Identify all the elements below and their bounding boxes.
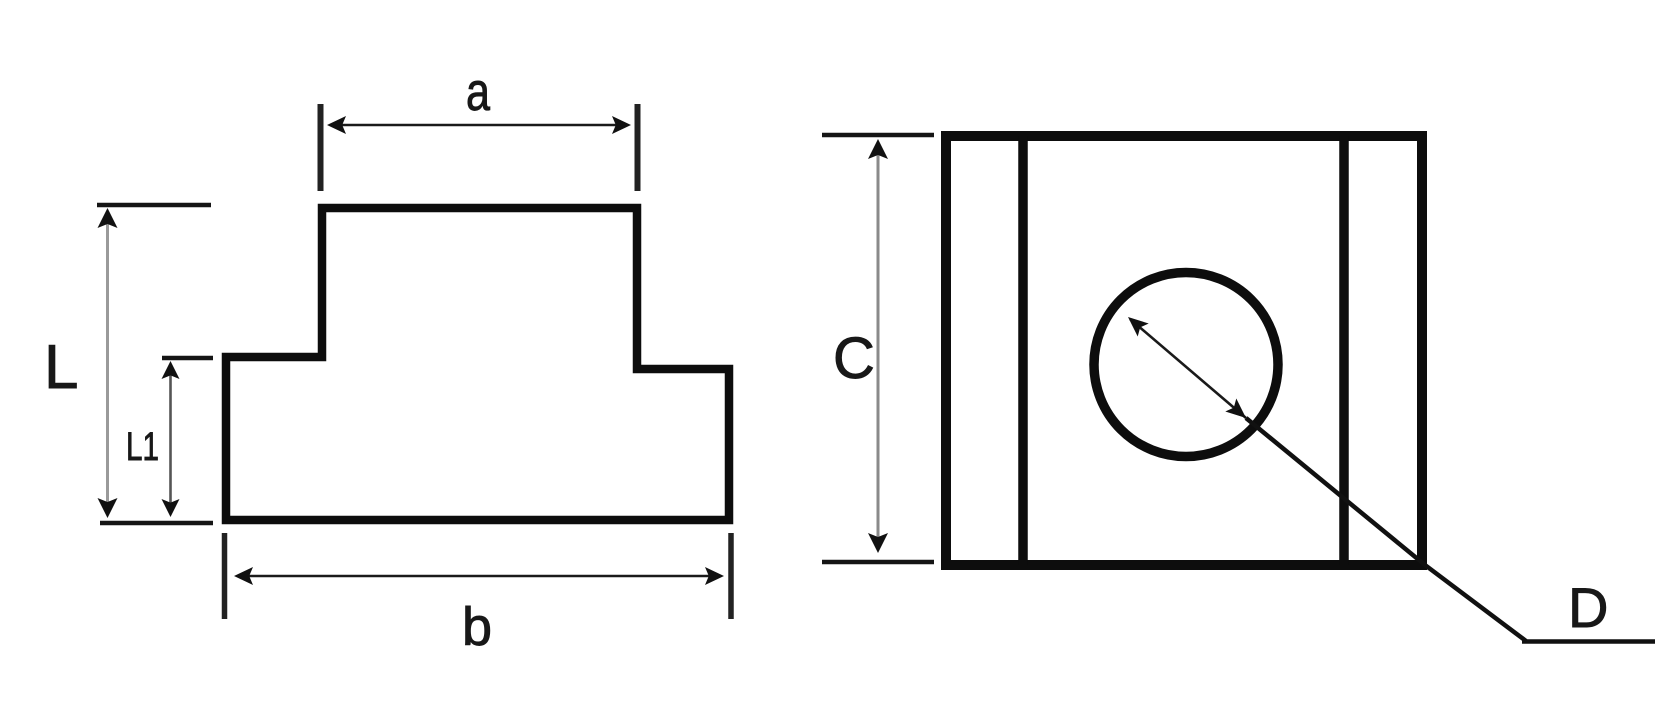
svg-text:C: C [833, 326, 875, 391]
svg-text:L: L [44, 333, 78, 402]
svg-text:D: D [1568, 576, 1608, 639]
svg-text:a: a [466, 62, 491, 122]
svg-text:b: b [462, 597, 492, 657]
svg-text:L1: L1 [126, 425, 159, 469]
